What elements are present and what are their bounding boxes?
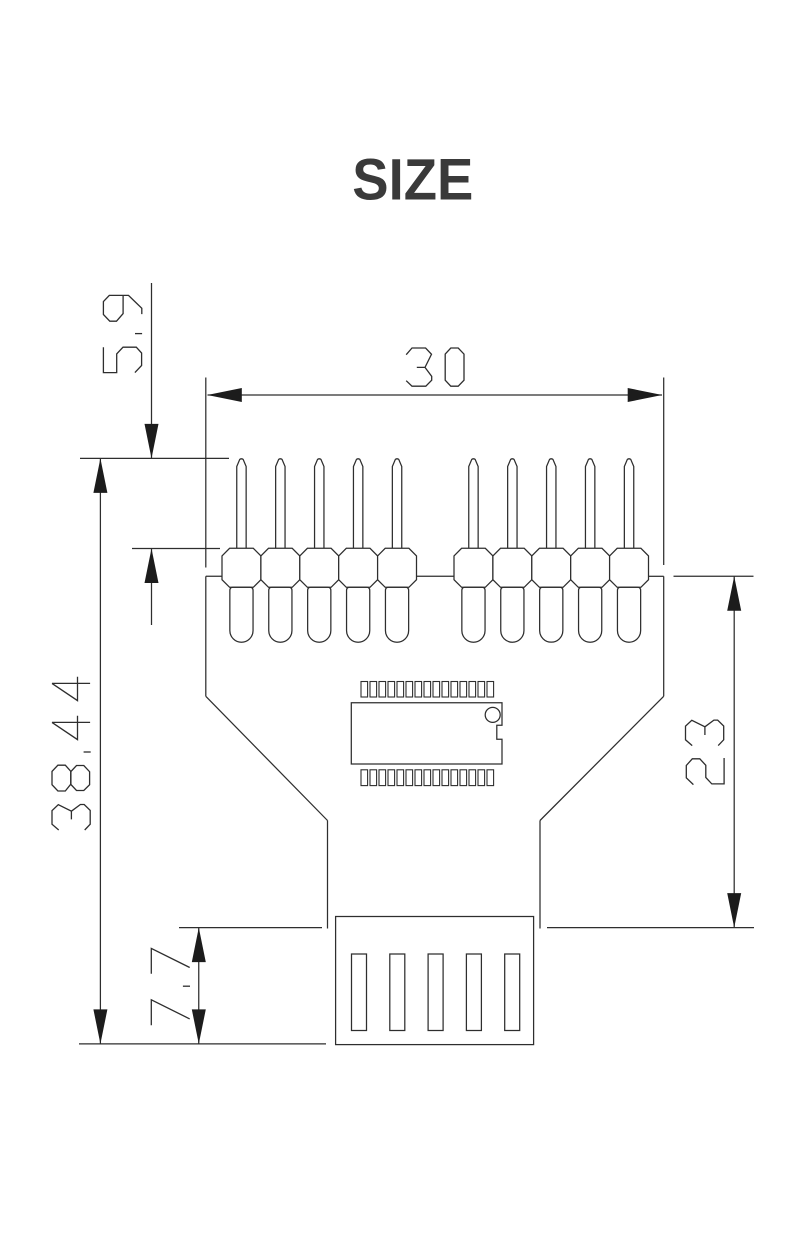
IC pad bottom 8 bbox=[424, 770, 431, 786]
dim 5.9 lower line bbox=[151, 549, 153, 625]
pin housing octagon 6 bbox=[454, 548, 493, 587]
IC pad top 10 bbox=[442, 682, 449, 698]
USB slot 2 bbox=[390, 954, 405, 1031]
dim 23 dimension line bbox=[733, 576, 735, 927]
IC pad bottom 1 bbox=[361, 770, 368, 786]
dim 23 down arrowhead bbox=[727, 893, 741, 928]
pin housing octagon 2 bbox=[261, 548, 300, 587]
dim text 30 bbox=[406, 348, 464, 386]
dim 38.44 dimension line bbox=[99, 458, 101, 1044]
pin capsule 1 bbox=[230, 587, 253, 642]
pin needle 10 bbox=[624, 459, 633, 550]
body top edge right segment bbox=[649, 575, 664, 577]
pin capsule 9 bbox=[579, 587, 602, 642]
USB slot 1 bbox=[352, 954, 367, 1031]
dim 7.7 up arrowhead bbox=[192, 928, 206, 963]
dim 7.7 down arrowhead bbox=[192, 1009, 206, 1044]
pin housing octagon 1 bbox=[222, 548, 261, 587]
pin needle 3 bbox=[315, 459, 324, 550]
pin capsule 8 bbox=[540, 587, 563, 642]
IC pad top 8 bbox=[424, 682, 431, 698]
dim 5.9 upper line bbox=[151, 283, 153, 458]
IC pad bottom 11 bbox=[451, 770, 458, 786]
dim text 38.44 bbox=[52, 677, 91, 830]
IC pad top 1 bbox=[361, 682, 368, 698]
dim text 7.7 bbox=[151, 948, 190, 1025]
dim 7.7 dimension line bbox=[198, 928, 200, 1044]
IC pad bottom 15 bbox=[487, 770, 494, 786]
IC pad top 3 bbox=[379, 682, 386, 698]
svg-text:SIZE: SIZE bbox=[352, 147, 473, 212]
body-top reference line right bbox=[674, 575, 754, 577]
dim 30 right arrowhead bbox=[628, 388, 663, 402]
IC pad top 2 bbox=[370, 682, 377, 698]
IC pad top 12 bbox=[460, 682, 467, 698]
pin needle 8 bbox=[547, 459, 556, 550]
pin capsule 2 bbox=[269, 587, 292, 642]
neck left edge bbox=[327, 821, 329, 929]
USB slot 3 bbox=[428, 954, 443, 1031]
pin capsule 5 bbox=[385, 587, 408, 642]
pin capsule 10 bbox=[617, 587, 640, 642]
IC pad top 14 bbox=[478, 682, 485, 698]
body left edge bbox=[205, 576, 207, 696]
dim text 5.9 bbox=[103, 295, 142, 372]
body right taper bbox=[540, 696, 664, 820]
IC pad bottom 5 bbox=[397, 770, 404, 786]
pin needle 1 bbox=[237, 459, 246, 550]
IC pad top 11 bbox=[451, 682, 458, 698]
housing-top reference line bbox=[132, 548, 220, 550]
USB connector shell bbox=[336, 917, 534, 1045]
IC pad bottom 3 bbox=[379, 770, 386, 786]
IC pad bottom 14 bbox=[478, 770, 485, 786]
pin capsule 4 bbox=[347, 587, 370, 642]
shell-top reference line left bbox=[179, 927, 322, 929]
IC pad top 6 bbox=[406, 682, 413, 698]
dim 38.44 down arrowhead bbox=[93, 1009, 107, 1044]
body top edge left segment bbox=[206, 575, 222, 577]
IC pad top 7 bbox=[415, 682, 422, 698]
IC pad bottom 10 bbox=[442, 770, 449, 786]
pin capsule 3 bbox=[308, 587, 331, 642]
pin needle 7 bbox=[508, 459, 517, 550]
shell-top reference line right bbox=[547, 927, 754, 929]
pin housing octagon 7 bbox=[493, 548, 532, 587]
dim 30 right extension line bbox=[663, 378, 665, 566]
IC pad top 9 bbox=[433, 682, 440, 698]
dim 38.44 up arrowhead bbox=[93, 458, 107, 493]
IC pad bottom 7 bbox=[415, 770, 422, 786]
USB slot 5 bbox=[505, 954, 520, 1031]
IC pad bottom 13 bbox=[469, 770, 476, 786]
pin capsule 6 bbox=[462, 587, 485, 642]
pin needle 6 bbox=[469, 459, 478, 550]
pin-top reference line bbox=[80, 457, 229, 459]
dim 5.9 up arrowhead bbox=[145, 549, 159, 584]
IC pad top 4 bbox=[388, 682, 395, 698]
IC pad bottom 9 bbox=[433, 770, 440, 786]
neck right edge bbox=[539, 821, 541, 929]
body right edge bbox=[663, 576, 665, 696]
IC pad bottom 2 bbox=[370, 770, 377, 786]
IC pad bottom 6 bbox=[406, 770, 413, 786]
IC pad bottom 12 bbox=[460, 770, 467, 786]
IC chip body U1 bbox=[351, 703, 502, 764]
dim 5.9 down arrowhead bbox=[145, 424, 159, 459]
dim 30 left arrowhead bbox=[207, 388, 242, 402]
dim 23 up arrowhead bbox=[727, 576, 741, 611]
pin needle 2 bbox=[276, 459, 285, 550]
pin housing octagon 5 bbox=[378, 548, 417, 587]
IC pin-1 circle bbox=[485, 707, 500, 722]
USB slot 4 bbox=[466, 954, 481, 1031]
dim 30 left extension line bbox=[205, 378, 207, 568]
IC pad top 13 bbox=[469, 682, 476, 698]
IC pad top 5 bbox=[397, 682, 404, 698]
pin housing octagon 4 bbox=[339, 548, 378, 587]
IC pad bottom 4 bbox=[388, 770, 395, 786]
body left taper bbox=[206, 696, 328, 820]
bottom reference line bbox=[79, 1043, 326, 1045]
pin housing octagon 9 bbox=[571, 548, 610, 587]
pin housing octagon 8 bbox=[532, 548, 571, 587]
pin housing octagon 10 bbox=[610, 548, 649, 587]
pin needle 5 bbox=[392, 459, 401, 550]
dim text 23 bbox=[686, 720, 725, 785]
pin capsule 7 bbox=[501, 587, 524, 642]
IC pad top 15 bbox=[487, 682, 494, 698]
pin housing octagon 3 bbox=[300, 548, 339, 587]
pin needle 4 bbox=[353, 459, 362, 550]
pin needle 9 bbox=[585, 459, 594, 550]
dim 30 dimension line bbox=[208, 394, 663, 396]
body top edge middle segment bbox=[417, 575, 455, 577]
